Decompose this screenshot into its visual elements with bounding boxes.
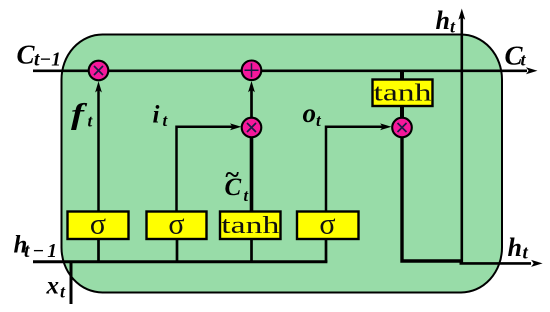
wire: h(t) output right arrow bbox=[460, 262, 532, 265]
svg-text:tanh: tanh bbox=[374, 81, 432, 107]
label i(t) bbox=[153, 102, 169, 131]
label C(t) bbox=[505, 41, 527, 71]
gate box tanh (output) bbox=[373, 80, 433, 107]
op: multiply node 3 (output) bbox=[392, 118, 412, 138]
label h(t) bottom right bbox=[508, 233, 529, 264]
svg-text:tanh: tanh bbox=[221, 213, 279, 239]
svg-text:t−1: t−1 bbox=[24, 241, 57, 262]
svg-text:h: h bbox=[508, 233, 522, 262]
label o(t) bbox=[303, 98, 323, 130]
op: multiply node 2 (input) bbox=[242, 118, 262, 138]
svg-text:C: C bbox=[17, 40, 36, 70]
wire: h(t) up arrow bbox=[460, 15, 463, 264]
label h(t-1) bbox=[14, 232, 58, 263]
op: add node bbox=[242, 61, 262, 81]
svg-text:h: h bbox=[436, 6, 450, 35]
wire: arrow from mult to add bbox=[250, 86, 253, 117]
svg-text:o: o bbox=[303, 98, 317, 128]
svg-text:t−1: t−1 bbox=[34, 50, 61, 71]
wire: output mult down and right to h junction bbox=[402, 138, 461, 262]
svg-text:σ: σ bbox=[168, 208, 184, 241]
wire: h(t-1) input line bbox=[33, 260, 327, 263]
gate box sigma 4 bbox=[297, 208, 359, 241]
wire: tanh box to output mult bbox=[400, 106, 404, 119]
svg-text:t: t bbox=[244, 186, 249, 205]
wire: sigma1 stub bbox=[97, 239, 100, 263]
label h(t) top bbox=[436, 6, 457, 37]
wire: sigma4 stub bbox=[325, 239, 328, 263]
gate box tanh (candidate) bbox=[220, 212, 281, 240]
svg-text:~: ~ bbox=[225, 160, 240, 189]
wire: candidate line up from tanh box bbox=[250, 138, 254, 213]
label f(t) bbox=[71, 97, 94, 131]
label C(t-1) bbox=[17, 40, 61, 71]
wire: x(t) input line bbox=[70, 261, 73, 305]
wire: forget-gate arrow f bbox=[97, 87, 100, 213]
wire: C line down into tanh output box bbox=[400, 71, 404, 81]
wire: output-gate path o bbox=[326, 127, 386, 212]
label C~(t) (candidate) bbox=[225, 160, 249, 205]
wire: sigma2 stub bbox=[176, 239, 179, 263]
wire: tanh stub bbox=[250, 239, 253, 263]
label x(t) bbox=[46, 273, 67, 302]
gate box sigma 1 bbox=[68, 208, 129, 241]
op: multiply node 1 (forget) bbox=[89, 61, 109, 81]
svg-text:i: i bbox=[153, 102, 160, 129]
wire: input-gate path i bbox=[177, 127, 236, 212]
svg-text:x: x bbox=[46, 273, 60, 300]
svg-text:t: t bbox=[523, 243, 529, 264]
svg-text:σ: σ bbox=[90, 208, 106, 241]
svg-text:σ: σ bbox=[319, 208, 335, 241]
LSTM cell body bbox=[62, 35, 503, 293]
wire: cell-state line C bbox=[33, 69, 527, 72]
gate box sigma 2 bbox=[147, 208, 207, 241]
